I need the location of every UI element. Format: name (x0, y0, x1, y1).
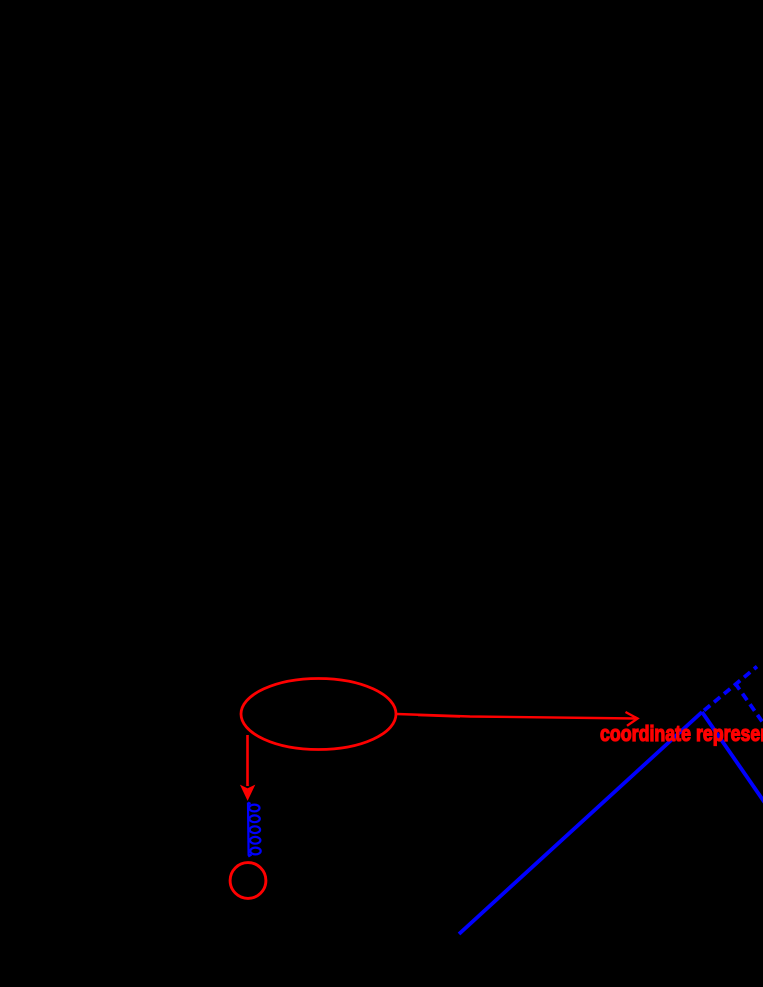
svg-text:coordinate representation: coordinate representation (600, 722, 763, 746)
